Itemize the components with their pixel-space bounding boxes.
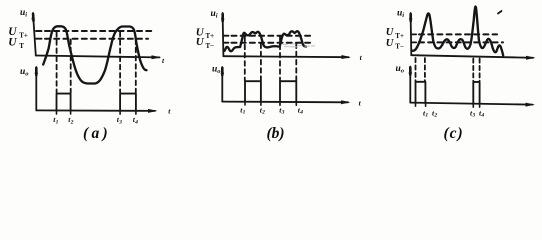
svg-text:(b): (b) (267, 125, 285, 142)
arrowhead ui axis (a) (31, 12, 34, 20)
svg-text:(c): (c) (444, 125, 464, 142)
tick t3 (a) (119, 111, 121, 114)
arrowhead t axis (b) (342, 55, 352, 59)
arrowhead t axis (c) (526, 56, 536, 60)
square pulse waveform uo (b) (245, 81, 296, 102)
sine waveform ui (a) (43, 26, 146, 83)
svg-text:T−: T− (395, 42, 404, 50)
square pulse waveform uo (a) (57, 94, 136, 111)
axis t horizontal uo (a) (36, 109, 155, 112)
arrowhead t axis uo (c) (526, 103, 536, 107)
arrowhead t axis (a) (152, 55, 162, 59)
tick t1 (c) (415, 103, 417, 106)
square pulse waveform uo (c) (416, 82, 480, 104)
dashed threshold line UT- (a) (36, 38, 148, 40)
spiky waveform ui (c) (412, 7, 503, 56)
axis ui vertical (a) (33, 13, 36, 56)
svg-text:U: U (8, 36, 17, 48)
arrowhead t axis uo (b) (341, 100, 351, 104)
faint watermark smudge (b) (283, 44, 315, 47)
svg-text:T+: T+ (19, 32, 28, 40)
axis uo vertical (c) (409, 67, 411, 103)
svg-text:( a ): ( a ) (83, 125, 108, 142)
svg-text:T: T (19, 42, 24, 50)
tick t3 (b) (279, 102, 281, 105)
vertical dashed line t1 (b) (244, 37, 246, 81)
vertical dashed line t3 (c) (472, 59, 474, 82)
arrowhead uo axis (c) (409, 66, 412, 74)
arrowhead uo axis (a) (35, 66, 38, 74)
svg-text:U: U (196, 36, 205, 48)
tick t1 (b) (244, 102, 246, 105)
tick t2 (b) (260, 102, 262, 105)
dashed threshold line UT+ (a) (36, 30, 152, 32)
dashed threshold line UT- (b) (224, 42, 310, 44)
noisy waveform ui (b) (225, 31, 307, 51)
dashed threshold line UT+ (c) (412, 33, 497, 35)
tick t2 (a) (70, 111, 72, 114)
vertical dashed line t3 (b) (279, 37, 281, 81)
vertical dashed line t4 (a) (135, 40, 137, 93)
tick t3 (c) (472, 104, 474, 107)
vertical dashed line t1 (c) (415, 58, 417, 81)
svg-text:T+: T+ (206, 32, 215, 40)
axis t horizontal (b) (223, 56, 348, 57)
tick t4 (b) (295, 102, 297, 105)
axis ui vertical (c) (410, 13, 413, 55)
vertical dashed line t2 (a) (70, 40, 72, 93)
arrowhead ui axis (b) (221, 12, 224, 20)
svg-text:T−: T− (206, 42, 215, 50)
axis uo vertical (a) (35, 67, 37, 110)
stray scan speck (c top right) (498, 11, 502, 14)
axis ui vertical (b) (222, 13, 225, 56)
arrowhead uo axis (b) (221, 66, 224, 74)
dashed threshold line UT+ (b) (224, 35, 313, 37)
tick t4 (a) (135, 111, 137, 114)
axis t horizontal (c) (411, 55, 533, 58)
tick t1 (a) (56, 111, 58, 114)
dashed threshold line UT- (c) (412, 41, 503, 43)
vertical dashed line t1 (a) (56, 32, 58, 93)
vertical dashed line t3 (a) (119, 32, 121, 93)
svg-text:T+: T+ (395, 32, 404, 40)
axis t horizontal (a) (36, 56, 160, 58)
axis t horizontal uo (c) (410, 103, 532, 105)
axis t horizontal uo (b) (222, 101, 348, 104)
vertical dashed line t4 (c) (479, 59, 481, 82)
vertical dashed line t2 (c) (424, 58, 426, 81)
tick t4 (c) (479, 104, 481, 107)
vertical dashed line t2 (b) (260, 44, 262, 81)
arrowhead ui axis (c) (409, 12, 412, 20)
vertical dashed line t4 (b) (295, 44, 297, 81)
arrowhead t axis uo (a) (148, 109, 158, 113)
axis uo vertical (b) (221, 67, 223, 102)
tick t2 (c) (425, 103, 427, 106)
